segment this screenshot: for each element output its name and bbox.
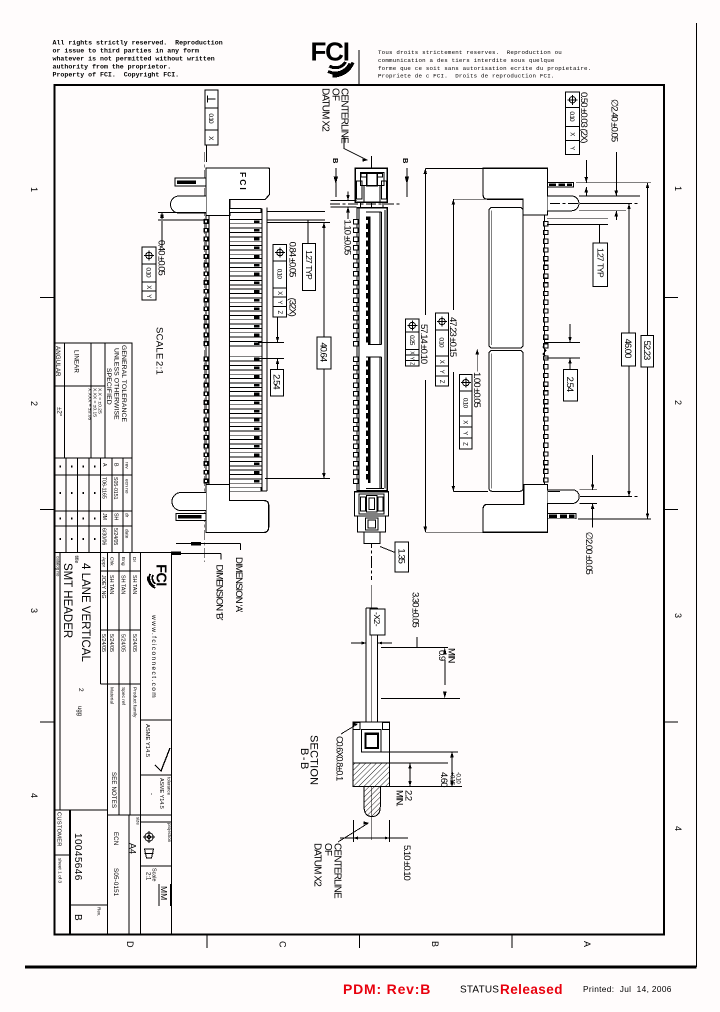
svg-text:tolerance: tolerance bbox=[167, 777, 172, 796]
svg-text:0.10: 0.10 bbox=[461, 398, 468, 409]
svg-text:ANGULAR: ANGULAR bbox=[54, 346, 61, 377]
svg-text:Appr: Appr bbox=[101, 557, 107, 568]
svg-text:B: B bbox=[113, 463, 119, 467]
svg-text:S05-0151: S05-0151 bbox=[112, 868, 119, 897]
svg-text:SH: SH bbox=[113, 513, 119, 520]
svg-text:B: B bbox=[331, 158, 340, 164]
svg-text:T06-1165: T06-1165 bbox=[101, 477, 107, 499]
svg-text:B: B bbox=[72, 914, 83, 921]
svg-text:57.14 ±0.10: 57.14 ±0.10 bbox=[418, 324, 429, 364]
svg-text:0.10: 0.10 bbox=[276, 269, 283, 280]
svg-text:DIMENSION ‘A’: DIMENSION ‘A’ bbox=[233, 557, 244, 613]
svg-text:LINEAR: LINEAR bbox=[73, 350, 80, 373]
svg-text:1: 1 bbox=[29, 187, 39, 192]
svg-text:forme que ce soit sans autoris: forme que ce soit sans autorisation ecri… bbox=[378, 65, 591, 72]
svg-text:B-B: B-B bbox=[298, 748, 310, 771]
svg-text:1.10 ±0.05: 1.10 ±0.05 bbox=[342, 220, 353, 256]
svg-text:-X2-: -X2- bbox=[372, 612, 382, 627]
svg-text:B: B bbox=[401, 158, 410, 164]
svg-text:1.35: 1.35 bbox=[395, 548, 406, 563]
svg-text:0.10: 0.10 bbox=[145, 267, 152, 278]
svg-text:SPECIFIED: SPECIFIED bbox=[105, 368, 112, 405]
svg-text:5/24/05: 5/24/05 bbox=[112, 528, 118, 545]
svg-text:S05-0151: S05-0151 bbox=[112, 477, 118, 500]
svg-text:PDM: Rev:B: PDM: Rev:B bbox=[343, 981, 431, 997]
svg-text:-: - bbox=[148, 793, 154, 795]
svg-text:Tous droits strictement reserv: Tous droits strictement reserves. Reprod… bbox=[378, 49, 562, 56]
svg-text:A: A bbox=[582, 941, 592, 947]
svg-text:0.25: 0.25 bbox=[408, 335, 415, 346]
svg-text:SMT HEADER: SMT HEADER bbox=[61, 563, 73, 638]
svg-text:1: 1 bbox=[673, 186, 683, 191]
svg-text:4: 4 bbox=[673, 826, 683, 831]
svg-text:ugg: ugg bbox=[76, 706, 82, 716]
svg-text:10045646: 10045646 bbox=[72, 833, 83, 881]
svg-text:authority from the proprietor.: authority from the proprietor. bbox=[53, 63, 172, 70]
svg-text:www.fciconnect.com: www.fciconnect.com bbox=[150, 614, 157, 699]
svg-text:sheet 1 of 3: sheet 1 of 3 bbox=[57, 858, 63, 883]
svg-text:Dr: Dr bbox=[131, 557, 137, 562]
svg-text:∅2.40 ±0.05: ∅2.40 ±0.05 bbox=[608, 99, 619, 142]
svg-text:C: C bbox=[278, 941, 288, 948]
svg-text:A: A bbox=[101, 463, 107, 467]
svg-text:Spec ref: Spec ref bbox=[120, 687, 126, 706]
svg-text:Printed: Jul 14, 2006: Printed: Jul 14, 2006 bbox=[583, 984, 672, 994]
svg-text:or issue to third parties in a: or issue to third parties in any form bbox=[53, 47, 199, 54]
svg-text:X.XXX = ±0.05: X.XXX = ±0.05 bbox=[87, 388, 93, 420]
svg-text:2.54: 2.54 bbox=[271, 374, 282, 389]
svg-text:5/24/05: 5/24/05 bbox=[108, 634, 114, 652]
svg-text:-0.10: -0.10 bbox=[455, 772, 461, 784]
svg-text:ASME Y14.5: ASME Y14.5 bbox=[144, 724, 150, 757]
svg-text:CUSTOMER: CUSTOMER bbox=[56, 812, 62, 847]
svg-text:Propriete de c FCI. Droits de: Propriete de c FCI. Droits de reproducti… bbox=[378, 73, 555, 80]
svg-text:whatever is not permitted with: whatever is not permitted without writte… bbox=[53, 55, 215, 62]
svg-text:ECN: ECN bbox=[112, 832, 118, 846]
svg-text:5.10 ±0.10: 5.10 ±0.10 bbox=[401, 845, 412, 881]
svg-text:6/30/06: 6/30/06 bbox=[101, 528, 107, 545]
svg-text:OF: OF bbox=[322, 843, 333, 856]
svg-text:±2°: ±2° bbox=[56, 407, 63, 417]
svg-text:2:1: 2:1 bbox=[145, 872, 151, 881]
svg-text:0.84 ±0.05: 0.84 ±0.05 bbox=[287, 242, 298, 278]
svg-text:52.23: 52.23 bbox=[641, 341, 652, 360]
svg-text:2.54: 2.54 bbox=[564, 377, 575, 392]
svg-text:2: 2 bbox=[29, 401, 39, 406]
svg-text:rev: rev bbox=[124, 462, 130, 469]
svg-text:dr: dr bbox=[124, 513, 130, 518]
svg-text:Rev.: Rev. bbox=[97, 907, 102, 916]
svg-text:FCI: FCI bbox=[311, 37, 349, 67]
svg-text:DATUM X2: DATUM X2 bbox=[312, 843, 323, 887]
svg-text:∅2.00 ±0.05: ∅2.00 ±0.05 bbox=[583, 532, 594, 575]
svg-text:1.27 TYP: 1.27 TYP bbox=[304, 250, 314, 280]
svg-text:FCI: FCI bbox=[238, 172, 248, 192]
svg-text:0.9: 0.9 bbox=[436, 650, 447, 661]
svg-text:ASME Y14.5: ASME Y14.5 bbox=[158, 778, 164, 809]
svg-text:(32X): (32X) bbox=[287, 298, 298, 317]
svg-text:2: 2 bbox=[77, 688, 84, 692]
svg-text:Property of FCI. Copyright FC: Property of FCI. Copyright FCI. bbox=[53, 71, 180, 78]
svg-text:MIN.: MIN. bbox=[394, 790, 405, 806]
svg-text:Released: Released bbox=[500, 982, 563, 997]
svg-text:communication a des tiers inte: communication a des tiers interdite sous… bbox=[378, 57, 555, 64]
svg-text:B: B bbox=[430, 941, 440, 947]
svg-text:JM: JM bbox=[101, 513, 107, 520]
svg-text:1.27 TYP: 1.27 TYP bbox=[595, 248, 605, 278]
svg-text:4.60: 4.60 bbox=[438, 772, 449, 787]
svg-text:projection: projection bbox=[167, 823, 172, 843]
svg-text:SH TAN: SH TAN bbox=[131, 575, 137, 594]
svg-text:Chk: Chk bbox=[109, 557, 115, 566]
svg-text:GENERAL TOLERANCE: GENERAL TOLERANCE bbox=[120, 345, 127, 422]
svg-text:40.64: 40.64 bbox=[318, 342, 329, 361]
svg-text:0.10: 0.10 bbox=[568, 111, 575, 122]
svg-text:Eng: Eng bbox=[120, 557, 126, 566]
svg-text:All rights strictly reserved.: All rights strictly reserved. Reproducti… bbox=[53, 39, 223, 46]
svg-text:DIMENSION ‘B’: DIMENSION ‘B’ bbox=[214, 565, 225, 621]
svg-text:0.40 ±0.05: 0.40 ±0.05 bbox=[156, 240, 167, 276]
svg-text:Material: Material bbox=[109, 687, 115, 704]
svg-text:MM: MM bbox=[159, 886, 169, 900]
svg-text:SCALE: SCALE bbox=[154, 327, 165, 360]
svg-text:5/24/05: 5/24/05 bbox=[100, 634, 106, 652]
svg-text:STATUS: STATUS bbox=[460, 985, 499, 996]
svg-text:4 LANE VERTICAL: 4 LANE VERTICAL bbox=[79, 563, 91, 662]
svg-text:date: date bbox=[124, 529, 130, 539]
svg-text:3: 3 bbox=[29, 608, 39, 613]
svg-text:C0.6X0.8±0.1: C0.6X0.8±0.1 bbox=[335, 736, 345, 781]
svg-text:46.00: 46.00 bbox=[622, 339, 633, 358]
svg-text:D: D bbox=[125, 941, 135, 948]
svg-text:5/24/05: 5/24/05 bbox=[131, 634, 137, 652]
svg-text:0.10: 0.10 bbox=[438, 337, 445, 348]
svg-text:A4: A4 bbox=[128, 843, 138, 854]
svg-text:SH TAN: SH TAN bbox=[120, 575, 126, 594]
svg-text:4: 4 bbox=[29, 793, 39, 798]
svg-text:3.30 ±0.05: 3.30 ±0.05 bbox=[410, 592, 421, 628]
svg-text:5/24/05: 5/24/05 bbox=[120, 634, 126, 652]
svg-text:SH TAN: SH TAN bbox=[108, 575, 114, 594]
svg-text:catalog no: catalog no bbox=[56, 556, 61, 577]
svg-text:UNLESS OTHERWISE: UNLESS OTHERWISE bbox=[113, 348, 120, 420]
svg-text:+0.15: +0.15 bbox=[449, 772, 455, 786]
svg-text:0.10: 0.10 bbox=[207, 113, 214, 124]
svg-text:2:1: 2:1 bbox=[154, 361, 165, 375]
svg-text:Product family: Product family bbox=[132, 687, 138, 718]
svg-text:size: size bbox=[136, 817, 141, 825]
svg-text:ecn no: ecn no bbox=[124, 479, 129, 494]
svg-text:2: 2 bbox=[673, 400, 683, 405]
svg-text:DATUM X2: DATUM X2 bbox=[320, 88, 331, 132]
svg-text:JOEY NG: JOEY NG bbox=[100, 575, 106, 599]
svg-text:3: 3 bbox=[673, 613, 683, 618]
svg-text:SEE NOTES: SEE NOTES bbox=[110, 772, 116, 808]
svg-text:MIN: MIN bbox=[446, 648, 457, 664]
